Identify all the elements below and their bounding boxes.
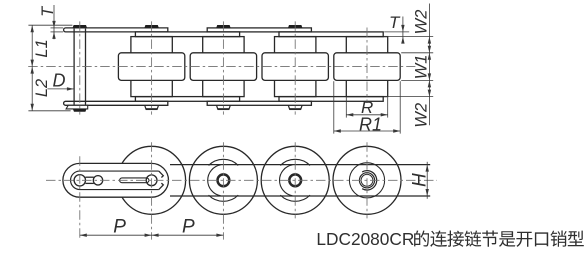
roller circle at pin 4 (side view) xyxy=(261,146,329,214)
pin 5 centerline (side view) xyxy=(366,142,368,218)
pin 4 centerline (top view) xyxy=(294,21,296,114)
dimension P (pitch, first) xyxy=(80,234,152,236)
dimension T (right, plate thickness) xyxy=(384,31,409,33)
pin 2 centerline (top view) xyxy=(151,21,153,114)
spring clip jaw (top) xyxy=(159,171,164,177)
pin 1 centerline (top view) xyxy=(79,21,81,114)
dimension D (pin diameter leader) xyxy=(47,88,74,90)
caption Chinese characters (vector paths) xyxy=(414,231,584,247)
pin 1 centerline (side view) xyxy=(79,156,81,239)
roller circle at pin 2 (side view) xyxy=(118,146,186,214)
bushing at pin 3 xyxy=(203,37,244,97)
roller at pin 3 (top view) xyxy=(190,53,256,81)
connecting link plate (capsule, side view) xyxy=(63,163,169,197)
pin 3 centerline (top view) xyxy=(222,21,224,114)
inner plate B (bottom strip) xyxy=(135,97,239,102)
svg-text:D: D xyxy=(53,71,66,91)
svg-text:P: P xyxy=(113,216,126,237)
inner plate B (top strip) xyxy=(135,32,239,37)
roller circle at pin 5 (side view) xyxy=(333,146,401,214)
rivet head on pin 3 (top) xyxy=(216,25,230,28)
pin 5 centerline (top view) xyxy=(366,28,368,104)
outer plate A (connecting link, top strip) xyxy=(64,28,168,32)
inner plate D (bottom strip) xyxy=(279,97,383,102)
chain centerline (side view) xyxy=(46,179,437,181)
plate end arc above pin 3 xyxy=(209,159,239,165)
svg-text:T: T xyxy=(389,13,401,32)
plate end arc above pin 4 xyxy=(280,159,310,165)
roller at pin 2 (top view) xyxy=(118,53,184,81)
spring clip jaw (bottom) xyxy=(159,183,164,189)
dimension R (bushing diameter) xyxy=(345,97,347,117)
cotter pin head on pin 1 (bottom) xyxy=(73,109,87,112)
cotter washer strip on pin 1 (bottom) xyxy=(66,105,88,109)
bushing arc at pin 3 (side view, open right) xyxy=(208,165,221,196)
pin 4 end (side view) xyxy=(289,174,301,186)
dimension P (pitch, second) xyxy=(152,234,224,236)
svg-text:H: H xyxy=(410,173,431,187)
keyhole neck xyxy=(85,176,93,178)
washer on pin 4 (bottom) xyxy=(288,105,302,109)
link plate edges (side view, top) xyxy=(170,164,430,166)
dimension L1/L2 (pin lengths) xyxy=(28,24,72,26)
pin 2 end circle xyxy=(146,175,157,186)
dimension H (plate height) xyxy=(426,162,428,199)
rivet head on pin 1 (top) xyxy=(73,25,87,28)
roller at pin 5 (top view) xyxy=(334,53,400,81)
svg-text:W1: W1 xyxy=(412,55,430,80)
washer on pin 2 (bottom) xyxy=(145,105,159,109)
pin 5 end rings xyxy=(359,173,374,188)
connecting pin 1 body xyxy=(73,29,75,105)
retaining clip at pin 5 (C-arc) xyxy=(362,171,377,190)
roller at pin 4 (top view) xyxy=(262,53,328,81)
svg-text:P: P xyxy=(182,216,195,237)
dimension T (left, plate thickness) xyxy=(51,27,64,29)
svg-text:R1: R1 xyxy=(359,114,382,134)
pin 2 centerline (side view) xyxy=(151,142,153,239)
dimension stack W2/W1/W2 (right) xyxy=(401,52,433,54)
svg-text:L2: L2 xyxy=(33,79,51,97)
svg-text:W2: W2 xyxy=(412,103,430,128)
pin 4 centerline (side view) xyxy=(294,142,296,218)
spring clip outline (inside connecting plate) xyxy=(71,171,159,190)
outer plate C (bottom strip) xyxy=(207,101,311,105)
washer on pin 3 (bottom) xyxy=(217,105,231,109)
rivet head on pin 4 (top) xyxy=(288,25,302,28)
washer circle at pin 5 (side view) xyxy=(349,163,384,198)
pin 3 centerline (side view) xyxy=(222,142,224,239)
roller circle at pin 3 (side view) xyxy=(189,146,257,214)
bushing at pin 4 xyxy=(275,37,316,97)
svg-text:LDC2080CR: LDC2080CR xyxy=(316,229,414,249)
bushing arc at pin 4 (side view, open right) xyxy=(280,165,293,196)
inner plate D (top strip) xyxy=(279,32,383,37)
chain centerline (top view) xyxy=(28,66,415,68)
plate end arc below pin 4 xyxy=(280,195,310,201)
bushing at pin 2 xyxy=(131,37,172,97)
rivet head on pin 2 (top) xyxy=(144,25,158,28)
outer plate C (top strip) xyxy=(207,28,311,32)
plate end arc below pin 3 xyxy=(209,195,239,201)
keyhole: secondary hole xyxy=(93,176,102,185)
svg-text:W2: W2 xyxy=(412,10,430,35)
outer plate A (connecting link, bottom strip) xyxy=(64,101,168,105)
svg-text:L1: L1 xyxy=(33,39,51,57)
keyhole: pin 1 hole xyxy=(74,175,85,186)
clip slot xyxy=(120,178,149,183)
dimension R1 (roller diameter) xyxy=(333,81,335,133)
link plate edges (side view, bottom) xyxy=(170,195,430,197)
bushing at pin 5 xyxy=(346,37,387,97)
pin 3 end (side view) xyxy=(218,174,230,186)
svg-text:T: T xyxy=(39,5,57,17)
